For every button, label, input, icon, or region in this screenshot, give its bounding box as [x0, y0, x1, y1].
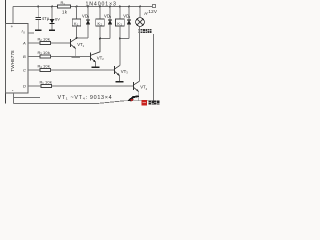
- wire: K2 bottom: [99, 26, 101, 39]
- wire: VD4 bottom: [128, 25, 130, 39]
- capacitor C1 47u: [36, 16, 42, 18]
- wire: VT2 emitter down: [95, 62, 97, 67]
- node: lamp branch: [139, 6, 141, 8]
- wire: K3-VD4 join: [120, 38, 129, 40]
- resistor R4 10k: [40, 68, 51, 71]
- resistor R5 10k: [41, 84, 52, 87]
- wire: R5 to VT4 base: [52, 85, 134, 87]
- wire: VD4 from bus: [128, 7, 130, 20]
- terminal +12V: [152, 4, 156, 8]
- ground bar VT1 emitter: [72, 56, 80, 58]
- wire: K3 bottom: [119, 26, 121, 39]
- transistor VT2: [90, 53, 92, 61]
- wire: VT3 emitter down: [119, 75, 121, 81]
- row C: wire IC pin C to R4: [28, 69, 40, 71]
- wire: R2 to VT1 base: [51, 42, 71, 44]
- svg-text:1k: 1k: [62, 9, 68, 14]
- svg-text:C: C: [23, 68, 26, 73]
- watermark logo arrow: [127, 95, 139, 101]
- wire: lamp bottom to VT4 collector: [139, 26, 141, 81]
- node: VD4 branch: [128, 6, 130, 8]
- svg-text:+: +: [11, 24, 14, 29]
- wire: lamp from bus: [139, 7, 141, 18]
- wire: VD3 bottom: [109, 25, 111, 39]
- wire: VT4 emitter down to rail: [138, 91, 140, 100]
- wire: K2 from bus: [99, 7, 101, 20]
- row B: wire IC pin B to R3: [28, 56, 40, 58]
- ground bar under capacitor: [35, 29, 41, 31]
- relay K2: [96, 19, 105, 26]
- node: K2 branch: [99, 6, 101, 8]
- relay K3: [116, 19, 125, 26]
- wire: R3 to VT2 base: [51, 56, 91, 58]
- wire: bottom rail: [13, 101, 153, 104]
- wire: right return riser: [153, 34, 155, 101]
- node: K1 branch: [76, 6, 78, 8]
- wire: K2-VD3 join: [100, 38, 110, 40]
- node: cap junction: [37, 6, 39, 8]
- svg-text:10k: 10k: [43, 63, 50, 68]
- resistor R2 10k: [40, 41, 51, 44]
- wire: K1 from bus: [76, 7, 78, 20]
- node: VD2 branch: [87, 6, 89, 8]
- row A: wire IC pin A to R2: [28, 42, 40, 44]
- transistor VT4: [133, 82, 135, 90]
- zener diode VS 6V: [50, 19, 55, 23]
- lamp H: [136, 18, 145, 27]
- node: VD3 branch: [109, 6, 111, 8]
- wire: VD2 bottom: [87, 25, 89, 38]
- wire: IC + pin up to top bus: [12, 7, 14, 24]
- ground bar VT2 emitter: [92, 66, 100, 68]
- svg-text:A: A: [22, 41, 26, 46]
- svg-text:VT₁ ~VT₄: 9013×4: VT₁ ~VT₄: 9013×4: [58, 95, 113, 101]
- wire: zener branch upper: [51, 7, 53, 20]
- label lamp (CJK substitute marks): [139, 29, 152, 33]
- svg-text:1N4001×3: 1N4001×3: [86, 1, 117, 7]
- watermark logo red square: [141, 100, 147, 106]
- svg-text:10k: 10k: [43, 50, 50, 55]
- wire: top supply bus: [13, 6, 152, 8]
- wire: inner ground stub: [13, 97, 40, 99]
- wire: K1-VD2 join: [77, 37, 89, 39]
- relay K1: [72, 19, 81, 26]
- resistor R1 1k in bus: [58, 5, 71, 8]
- svg-text:B: B: [23, 54, 26, 59]
- ground bar VT3 emitter: [116, 81, 124, 83]
- wire: K1 bottom: [76, 26, 78, 38]
- wire: pin I0 stub: [28, 32, 34, 34]
- svg-text:10k: 10k: [45, 80, 52, 85]
- ground bar under zener: [49, 29, 55, 31]
- svg-text:10k: 10k: [43, 36, 50, 41]
- node: zener junction: [51, 6, 53, 8]
- wire: zener branch lower: [51, 24, 53, 29]
- svg-text:6V: 6V: [55, 17, 60, 22]
- wire: R4 to VT3 base: [51, 69, 115, 71]
- watermark logo text: [149, 101, 160, 105]
- svg-text:TWH8778: TWH8778: [10, 50, 15, 72]
- wire: IC minus pin down: [12, 93, 14, 103]
- wire: cap branch lower: [37, 20, 39, 30]
- IC U1 TWH8778 box: [6, 24, 29, 94]
- background: [0, 0, 160, 110]
- svg-text:D: D: [23, 84, 26, 89]
- wire: VD2 from bus: [87, 7, 89, 20]
- node: K3 branch: [119, 6, 121, 8]
- wire: VD3 from bus: [109, 7, 111, 20]
- row D: wire IC pin D to R5: [28, 85, 41, 87]
- transistor VT3: [114, 66, 116, 74]
- transistor VT1: [70, 39, 72, 47]
- wire: K3 from bus: [119, 7, 121, 20]
- svg-text:47μ: 47μ: [42, 16, 50, 21]
- wire: cap branch upper: [37, 7, 39, 18]
- wire: VT1 emitter down: [75, 48, 77, 56]
- resistor R3 10k: [40, 55, 51, 58]
- svg-text:12V: 12V: [148, 9, 158, 14]
- left frame line: [5, 0, 7, 103]
